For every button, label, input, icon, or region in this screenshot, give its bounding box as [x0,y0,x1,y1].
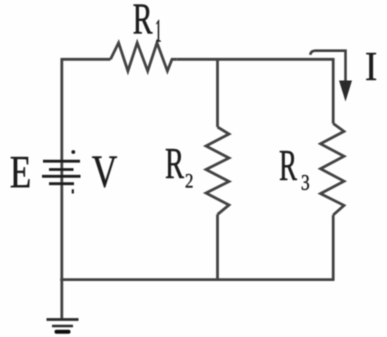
resistor R1 [111,43,177,71]
label R2 [166,149,193,188]
wire [216,215,219,280]
label R1 [134,5,161,42]
wire [332,58,335,124]
wire [60,278,334,281]
label I [366,53,376,80]
wire [332,215,335,281]
label V [92,157,117,188]
resistor R3 [321,124,345,216]
battery E [42,150,81,193]
label E [11,157,30,187]
current arrow I [310,51,352,102]
label R3 [280,151,309,190]
wire [216,58,219,127]
wire [60,58,63,319]
resistor R2 [206,127,229,215]
wire [177,58,334,61]
ground [47,320,79,332]
wire [62,58,111,61]
